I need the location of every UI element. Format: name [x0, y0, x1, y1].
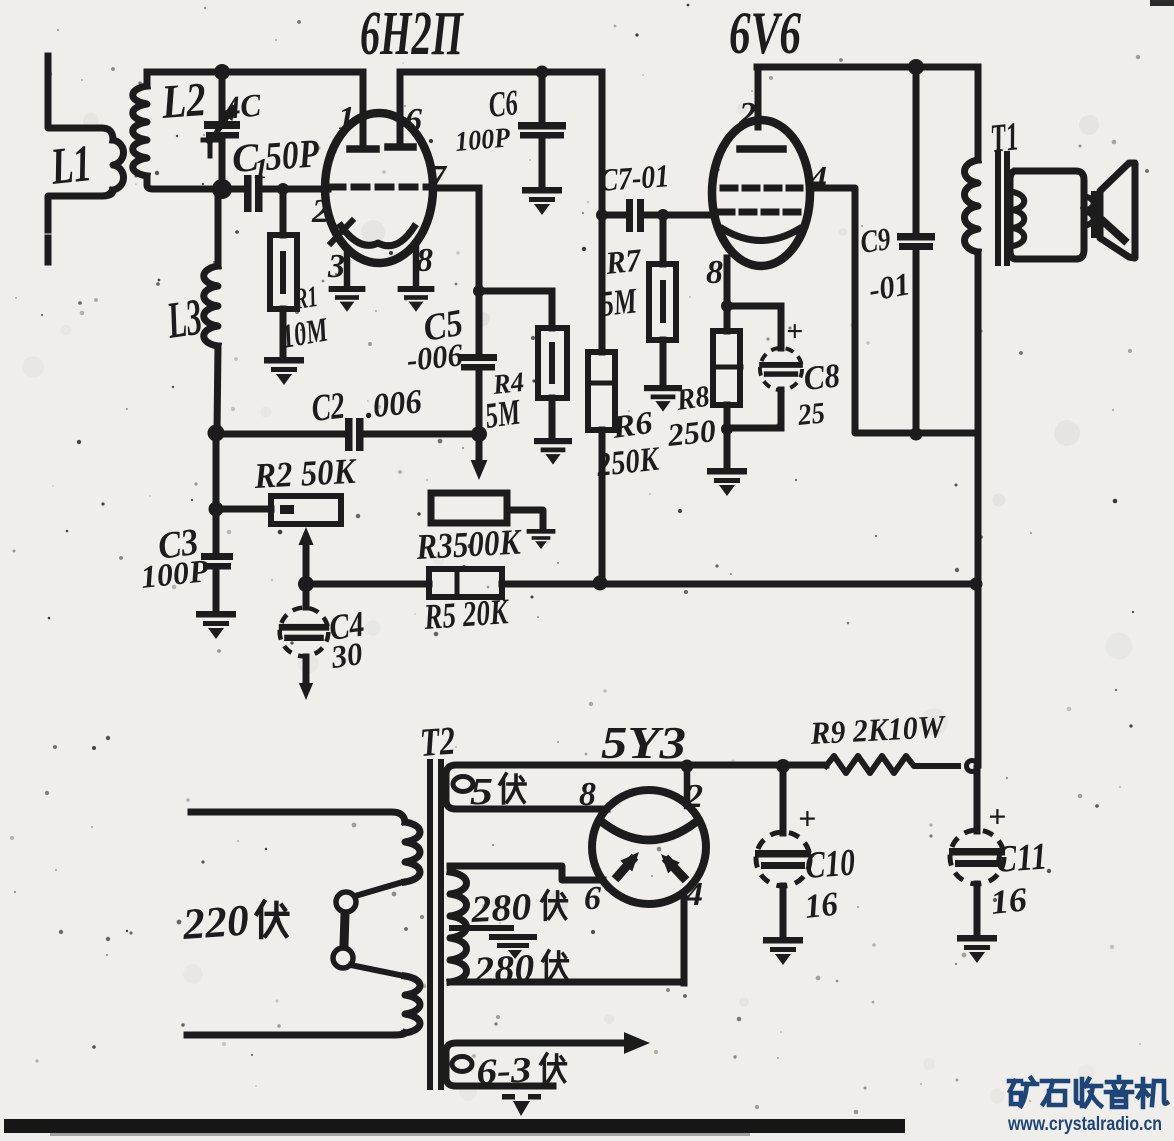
- ground below pin 3: [329, 286, 366, 312]
- label C5 -006: [405, 302, 466, 378]
- svg-text:4: 4: [685, 876, 703, 913]
- svg-text:280: 280: [469, 886, 532, 931]
- node B+ / R5 line: [970, 578, 983, 591]
- svg-text:2: 2: [685, 778, 703, 815]
- pin number labels 6V6: [706, 96, 827, 291]
- node cathode bottom: [721, 423, 733, 435]
- svg-text:30: 30: [328, 635, 365, 675]
- wire cathode to ground: [724, 430, 731, 467]
- node C10 top: [776, 759, 790, 773]
- ground below cathode: [707, 468, 747, 496]
- svg-text:+: +: [798, 800, 816, 836]
- transformer T1 core: [998, 154, 1007, 268]
- label C6 100P: [454, 82, 520, 158]
- svg-text:-01: -01: [866, 265, 913, 308]
- svg-text:C7-01: C7-01: [598, 157, 670, 198]
- label R4 5M: [483, 367, 526, 436]
- node C7 left: [596, 209, 608, 221]
- anode arrow right 5Y3: [655, 849, 683, 877]
- capacitor C4 30 (electrolytic): [279, 586, 329, 700]
- svg-text:5M: 5M: [483, 391, 525, 436]
- ground below R3 arm: [527, 529, 556, 549]
- resistor R1 10M grid leak: [270, 191, 297, 356]
- wire pot wiper arrow into R3: [471, 436, 488, 480]
- label T2: [418, 718, 456, 765]
- label 280V upper: [469, 886, 566, 931]
- node C2 left junction: [208, 425, 225, 442]
- node 5Y3 pin2 on line: [681, 760, 694, 773]
- pin 1 lead + anode plate: [350, 72, 376, 149]
- svg-text:5: 5: [470, 771, 493, 813]
- loudspeaker: [1091, 163, 1135, 258]
- potentiometer R2 50K: [218, 496, 341, 582]
- tube envelope 6V6: [712, 120, 810, 266]
- svg-text:R3500K: R3500K: [414, 521, 523, 567]
- svg-text:C8: C8: [802, 357, 842, 398]
- pin 8 lead: [413, 245, 420, 284]
- svg-text:C10: C10: [804, 842, 857, 887]
- svg-text:1: 1: [338, 100, 355, 137]
- tube envelope 6Н2П: [325, 113, 433, 263]
- svg-text:5Y3: 5Y3: [601, 717, 686, 768]
- resistor R6 250K (plate load): [588, 217, 615, 582]
- svg-text:3: 3: [327, 248, 345, 285]
- ground below C6: [522, 187, 562, 215]
- label C2 .006: [310, 383, 424, 430]
- node R2 branch: [209, 502, 224, 517]
- label C11 16: [988, 798, 1049, 922]
- wire rail B corner down to C7 node: [599, 72, 606, 215]
- transformer T2 core: [430, 762, 441, 1092]
- svg-text:+: +: [786, 315, 803, 348]
- svg-text:R9 2K10W: R9 2K10W: [809, 708, 948, 751]
- svg-text:220: 220: [180, 895, 250, 949]
- label C9 -01: [858, 220, 913, 308]
- wire rectifier output line (5V top): [446, 765, 826, 813]
- node rail A / 4C junction: [214, 64, 230, 80]
- svg-text:16: 16: [989, 881, 1029, 922]
- watermark 矿石收音机: [1009, 1077, 1167, 1107]
- label R6 250K: [594, 404, 662, 484]
- wire rail B (anode 2 to C6/C7): [400, 69, 602, 76]
- wire rail A (6H2P anode 1): [147, 69, 363, 76]
- node R1 top: [277, 183, 289, 195]
- pin number labels 5Y3: [579, 776, 703, 917]
- coil L3: [163, 191, 218, 431]
- svg-text:50P: 50P: [263, 130, 320, 179]
- resistor R5 20K (in line): [308, 569, 975, 597]
- label 280V lower: [472, 947, 567, 992]
- label R8 250: [665, 380, 717, 453]
- svg-text:C2: C2: [310, 385, 347, 430]
- svg-text:8: 8: [706, 254, 723, 291]
- T2 secondary 280V windings: [450, 866, 684, 983]
- svg-text:www.crystalradio.cn: www.crystalradio.cn: [1007, 1114, 1162, 1135]
- svg-text:.006: .006: [363, 383, 424, 426]
- label C10 16: [798, 800, 857, 926]
- svg-text:C9: C9: [858, 220, 893, 260]
- scan top-right mark: [1150, 0, 1174, 6]
- svg-text:L1: L1: [48, 135, 94, 196]
- grid dashes row1 6V6: [723, 185, 800, 192]
- node R7 top: [657, 209, 669, 221]
- svg-text:6: 6: [584, 880, 601, 917]
- svg-text:R6: R6: [609, 404, 655, 445]
- node rail C / C9 top: [908, 59, 924, 75]
- pin 2 lead 5Y3: [684, 768, 691, 806]
- label R2 50K: [252, 451, 359, 496]
- label R9 2K10W: [809, 708, 948, 751]
- wire grid2/pin7 to C5: [434, 188, 479, 354]
- potentiometer R3 500K: [431, 493, 507, 523]
- svg-text:R2 50K: R2 50K: [252, 451, 359, 496]
- node C2 right junction: [471, 426, 487, 442]
- resistor R9 zigzag: [826, 756, 958, 773]
- svg-text:R7: R7: [603, 241, 644, 281]
- capacitor C7 -01 (coupling): [604, 199, 713, 232]
- svg-text:100P: 100P: [454, 122, 512, 158]
- cathode arc 6V6: [723, 229, 799, 241]
- wire L3 node down: [213, 435, 220, 552]
- svg-text:C11: C11: [994, 835, 1049, 881]
- T2 primary upper winding: [191, 812, 420, 882]
- pin 2 lead + plate bar: [740, 67, 783, 149]
- svg-text:6: 6: [405, 102, 422, 139]
- anode arrow left 5Y3: [618, 847, 645, 876]
- node R9 right / C11 top: [967, 761, 978, 772]
- filament arc 5Y3: [602, 822, 696, 840]
- svg-text:-006: -006: [405, 336, 464, 378]
- wire pin 4 screen to B+ node: [811, 188, 976, 433]
- mains switch: [333, 882, 404, 976]
- grid dashes 6Н2П: [330, 184, 431, 191]
- capacitor C1 50P (series grid cap): [224, 130, 328, 212]
- label T1: [988, 113, 1021, 161]
- ground below R4: [534, 438, 572, 465]
- resistor R7 5M (6V6 grid leak): [649, 217, 676, 384]
- resistor R8 250 (cathode bias): [713, 308, 741, 428]
- svg-text:6V6: 6V6: [729, 0, 801, 66]
- svg-text:2: 2: [311, 193, 329, 230]
- svg-text:+: +: [988, 798, 1006, 834]
- label tube 6V6: [729, 0, 801, 66]
- label tube 5Y3: [601, 717, 686, 768]
- svg-text:R5 20K: R5 20K: [422, 591, 512, 637]
- pin 6 lead + anode plate: [388, 72, 413, 147]
- node R2 wiper / R5 line: [298, 576, 314, 592]
- label R7 5M: [599, 241, 645, 324]
- svg-text:8: 8: [416, 242, 433, 279]
- variable capacitor 4C: [203, 74, 263, 186]
- svg-text:100P: 100P: [139, 552, 211, 595]
- svg-text:8: 8: [579, 776, 596, 813]
- pin 3 lead: [344, 249, 351, 284]
- ground below R1: [264, 357, 304, 385]
- 280V center tap to ground: [452, 928, 537, 959]
- capacitor C6 100P: [518, 74, 566, 186]
- T2 6.3V winding: [446, 1032, 650, 1086]
- label tube 6Н2П: [360, 0, 464, 68]
- node rail B / C6: [536, 66, 549, 79]
- scan bottom edge bar: [4, 1119, 905, 1136]
- label 220V: [180, 895, 287, 949]
- transformer T1 secondary + output frame: [1010, 171, 1094, 259]
- node screen line / C9 bottom: [910, 428, 923, 441]
- label 6-3V: [475, 1049, 565, 1092]
- transformer T1 primary: [965, 67, 979, 765]
- coil L2 tank: [133, 73, 222, 189]
- cathode arcs 6Н2П: [331, 221, 414, 246]
- node C5 top / R4 branch: [473, 285, 485, 297]
- ground arrow below 6.3V: [502, 1094, 541, 1116]
- capacitor C8 25 (cathode bypass): [729, 306, 803, 428]
- ground below C11: [957, 935, 997, 963]
- node cathode junction: [721, 300, 733, 312]
- capacitor C9 -01 (tone): [897, 69, 935, 432]
- wire rail C (6V6 plate): [757, 64, 977, 71]
- label R3 500K: [414, 521, 523, 567]
- label C8 25 plus sign: [786, 315, 842, 432]
- pin number labels 6Н2П: [311, 100, 448, 285]
- svg-text:R1: R1: [292, 280, 320, 316]
- ground below C3: [196, 611, 236, 639]
- node tank bottom junction: [212, 179, 232, 199]
- capacitor C11 16 (filter): [949, 768, 1005, 934]
- pin 8 cathode lead 6V6: [724, 258, 731, 305]
- svg-text:L2: L2: [159, 73, 207, 129]
- label R1 10M: [279, 280, 332, 356]
- svg-text:250K: 250K: [594, 440, 662, 484]
- svg-text:4C: 4C: [222, 86, 263, 126]
- label C3 100P: [139, 521, 211, 595]
- ground below R7: [644, 385, 682, 412]
- T2 primary lower winding: [187, 976, 420, 1035]
- svg-text:T2: T2: [418, 718, 456, 765]
- resistor R4 5M: [481, 291, 567, 437]
- svg-text:16: 16: [803, 886, 840, 926]
- svg-text:6-3: 6-3: [475, 1049, 532, 1092]
- svg-text:280: 280: [472, 947, 535, 992]
- capacitor C10 16 (filter): [755, 768, 811, 936]
- svg-text:6Н2П: 6Н2П: [360, 0, 464, 68]
- svg-text:250: 250: [665, 412, 717, 453]
- tube envelope 5Y3: [592, 790, 706, 904]
- capacitor C3 100P: [201, 553, 233, 610]
- grid dashes row2 6V6: [720, 209, 802, 216]
- label R5 20K: [422, 591, 512, 637]
- svg-text:25: 25: [795, 396, 826, 432]
- capacitor C5 -006 (series): [459, 354, 497, 431]
- ground below pin 8: [398, 286, 435, 312]
- svg-text:C6: C6: [487, 82, 520, 125]
- capacitor C2 .006 (series in line): [217, 418, 479, 451]
- wire R3 right end to ground: [507, 510, 543, 528]
- node R6 / R5 line: [593, 576, 608, 591]
- watermark url: [1007, 1114, 1162, 1135]
- coil L1 antenna loop: [48, 56, 124, 262]
- label C7 -01: [598, 157, 670, 198]
- ground below C10: [763, 937, 803, 965]
- svg-text:R8: R8: [673, 380, 711, 417]
- label C4 30: [327, 603, 367, 675]
- svg-text:2: 2: [738, 96, 756, 133]
